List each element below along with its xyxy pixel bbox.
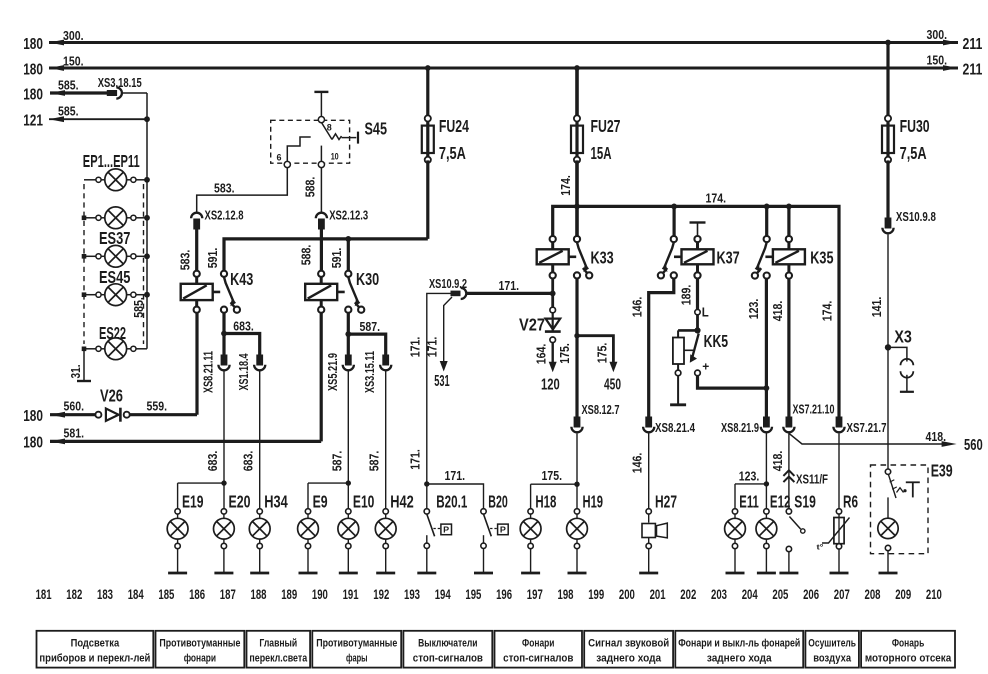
svg-text:194: 194 xyxy=(435,587,451,602)
junction 175/450 branch xyxy=(574,333,579,338)
svg-text:192: 192 xyxy=(373,587,389,602)
connector XS10.9.8 xyxy=(882,209,936,233)
ground (R6) xyxy=(830,572,849,575)
switch S45 lever and stop xyxy=(321,122,358,143)
svg-text:197: 197 xyxy=(527,587,543,602)
svg-text:Фонарь: Фонарь xyxy=(892,638,925,650)
svg-text:H34: H34 xyxy=(264,491,288,511)
junction FU30 on net 300 xyxy=(885,40,891,46)
ground (E9) xyxy=(299,572,318,575)
svg-text:171.: 171. xyxy=(408,449,423,470)
junction net 587 xyxy=(345,331,351,337)
grid number 191 xyxy=(343,587,359,602)
svg-text:Противотуманные: Противотуманные xyxy=(159,638,240,650)
svg-text:E9: E9 xyxy=(313,491,328,511)
svg-text:XS3.15.11: XS3.15.11 xyxy=(362,351,377,393)
svg-text:175.: 175. xyxy=(594,343,609,364)
wire label 591. at K43 xyxy=(205,248,220,269)
grid number 199 xyxy=(588,587,604,602)
ground (H42) xyxy=(376,572,395,575)
svg-text:31.: 31. xyxy=(68,365,83,379)
wire KK5 contact to net 123 xyxy=(698,376,767,389)
grid number 198 xyxy=(558,587,574,602)
lamp E11 xyxy=(725,491,759,573)
wire FU30 to XS10.9.8 xyxy=(886,160,889,217)
svg-text:K33: K33 xyxy=(591,248,614,268)
svg-text:180: 180 xyxy=(23,36,43,53)
legend cell: Осушитель воздуха xyxy=(805,631,859,668)
ground (E10) xyxy=(339,572,358,575)
connector XS2.12.8 xyxy=(191,207,243,229)
svg-text:S45: S45 xyxy=(365,119,388,139)
svg-text:171.: 171. xyxy=(499,278,520,293)
switch S45 label xyxy=(365,119,388,139)
svg-text:E11: E11 xyxy=(739,491,759,511)
node X3 xyxy=(885,327,914,392)
junction on bus at 121 feed xyxy=(144,116,150,122)
connector XS2.12.3 xyxy=(316,207,368,229)
wire 588 from S45 pin 10 to connector XS2.12.3 xyxy=(302,168,321,213)
svg-text:583.: 583. xyxy=(214,180,235,195)
junction FU24 on net 150 xyxy=(425,65,431,71)
junction dot ES45 on bus xyxy=(144,292,150,298)
grid number 203 xyxy=(711,587,727,602)
svg-text:XS10.9.8: XS10.9.8 xyxy=(896,209,936,224)
svg-text:XS2.12.3: XS2.12.3 xyxy=(329,207,368,222)
fuse FU24 7,5A xyxy=(422,68,469,163)
svg-text:209: 209 xyxy=(895,587,911,602)
svg-text:123.: 123. xyxy=(739,469,760,484)
switch S45 dashed enclosure xyxy=(271,120,350,163)
svg-text:фонари: фонари xyxy=(184,653,216,665)
wire 418 to switch S19 xyxy=(770,433,789,509)
relay K35 xyxy=(752,236,834,279)
ground (KK5) xyxy=(670,403,686,406)
wire 583 from S45 pin 6 to connector XS2.12.8 xyxy=(197,168,288,213)
svg-text:174.: 174. xyxy=(819,301,834,322)
grid number 208 xyxy=(865,587,881,602)
junction at H19 wire xyxy=(574,482,579,487)
wire net 174 to K35 switch xyxy=(765,206,768,236)
lamp E10 xyxy=(338,491,375,573)
wire XS2.12.3 to K30 coil (net 588) xyxy=(320,228,323,270)
wire net 174 to K35 coil xyxy=(787,206,790,236)
svg-text:E39: E39 xyxy=(931,461,953,481)
svg-text:585.: 585. xyxy=(58,104,79,119)
wire 585 port 121 xyxy=(23,104,147,130)
legend cell: Сигнал звуковой заднего хода xyxy=(584,631,673,668)
wire 587 to lamp H42 xyxy=(367,371,386,509)
svg-text:E12: E12 xyxy=(770,491,791,511)
grid number 207 xyxy=(834,587,850,602)
svg-text:190: 190 xyxy=(312,587,328,602)
svg-text:418.: 418. xyxy=(770,301,785,322)
grid number 190 xyxy=(312,587,328,602)
svg-text:FU24: FU24 xyxy=(439,116,469,136)
wire 31 to ground from lamp chain xyxy=(68,349,84,381)
wire label 591. at K30 xyxy=(329,248,344,269)
grid number 181 xyxy=(36,587,52,602)
junction net 174 at K35 switch xyxy=(764,204,770,210)
svg-text:EP1...EP11: EP1...EP11 xyxy=(83,151,140,171)
junction at E12 wire xyxy=(764,481,769,486)
grid number 188 xyxy=(251,587,267,602)
svg-text:K30: K30 xyxy=(356,269,379,289)
svg-text:146.: 146. xyxy=(630,453,645,474)
svg-text:H42: H42 xyxy=(390,491,414,511)
ground (B20.1) xyxy=(417,572,436,575)
net 150 bus (second horizontal wire) xyxy=(49,67,958,70)
svg-text:R6: R6 xyxy=(843,491,858,511)
svg-text:+: + xyxy=(702,362,709,374)
wire label 150. (right) xyxy=(927,53,948,68)
wire 175 to lamps H19/H18 xyxy=(531,433,577,508)
lamp E39 dashed enclosure xyxy=(871,461,953,554)
wire label 300. (left) xyxy=(63,28,84,43)
grid number 197 xyxy=(527,587,543,602)
wire 171 branch to node 531 xyxy=(425,297,452,372)
svg-text:10: 10 xyxy=(331,151,339,162)
svg-text:6: 6 xyxy=(277,153,282,164)
svg-text:150.: 150. xyxy=(927,53,948,68)
resistor R6 (air drier heater) xyxy=(817,491,859,573)
lamp H19 xyxy=(567,491,604,573)
legend cell: Фонарь моторного отсека xyxy=(861,631,955,668)
wire net 683 from K43 contact to connectors xyxy=(224,313,260,355)
thermal relay KK5 xyxy=(673,315,728,376)
ground (B20) xyxy=(474,572,493,575)
svg-text:Фонари и выкл-ль фонарей: Фонари и выкл-ль фонарей xyxy=(678,638,800,650)
connector XS8.21.11 xyxy=(201,351,230,393)
svg-text:моторного отсека: моторного отсека xyxy=(865,653,952,665)
connector XS5.21.9 xyxy=(325,353,354,391)
svg-text:188: 188 xyxy=(251,587,267,602)
ground (H19) xyxy=(568,572,587,575)
wire net 175 from K33 contact to XS8.12.7 xyxy=(557,279,577,417)
svg-text:K35: K35 xyxy=(810,248,833,268)
relay K33 xyxy=(537,236,614,279)
svg-text:V27: V27 xyxy=(519,315,545,335)
connector XS3.18.15 xyxy=(98,75,142,99)
wire 559 from V26 to relay K43 coil xyxy=(129,313,197,415)
svg-text:581.: 581. xyxy=(64,425,85,440)
dashed enclosure of panel lamps EP1...EP11 xyxy=(84,184,144,344)
svg-text:195: 195 xyxy=(465,587,481,602)
wire 560 from V26 to port 180 xyxy=(23,399,96,425)
pin 6 of S45 xyxy=(277,153,291,168)
node 450 (off-page arrow) xyxy=(604,377,621,394)
svg-text:E20: E20 xyxy=(229,491,251,511)
junction net 591 to K30 xyxy=(345,236,351,242)
svg-text:204: 204 xyxy=(742,587,758,602)
svg-text:Главный: Главный xyxy=(259,638,297,650)
svg-text:200: 200 xyxy=(619,587,635,602)
wire 175 branch to node 450 xyxy=(577,336,617,373)
svg-text:Подсветка: Подсветка xyxy=(71,638,120,650)
lamp H18 xyxy=(520,491,556,573)
switch S19 xyxy=(786,491,816,573)
svg-text:181: 181 xyxy=(36,587,52,602)
svg-text:XS8.21.9: XS8.21.9 xyxy=(721,420,759,435)
svg-text:Фонари: Фонари xyxy=(522,638,554,650)
svg-text:Противотуманные: Противотуманные xyxy=(316,638,397,650)
svg-text:189: 189 xyxy=(281,587,297,602)
svg-text:189.: 189. xyxy=(678,285,693,306)
svg-text:XS7.21.10: XS7.21.10 xyxy=(793,402,835,417)
wire 587 to lamp E10 and bridge to E9 xyxy=(308,371,348,509)
ground (E19) xyxy=(168,572,187,575)
svg-text:180: 180 xyxy=(23,435,43,452)
svg-text:207: 207 xyxy=(834,587,850,602)
svg-text:стоп-сигналов: стоп-сигналов xyxy=(503,653,574,665)
wire net 123 from K35 contact to XS8.21.9 xyxy=(746,279,766,417)
grid number 184 xyxy=(128,587,144,602)
svg-text:587.: 587. xyxy=(360,319,381,334)
svg-text:Сигнал звуковой: Сигнал звуковой xyxy=(588,638,669,650)
wire XS2.12.8 to K43 coil (net 583) xyxy=(178,228,197,270)
svg-text:Р: Р xyxy=(443,525,449,535)
svg-text:560: 560 xyxy=(964,437,983,454)
svg-text:заднего хода: заднего хода xyxy=(707,653,773,665)
switch S45 terminal bar xyxy=(314,92,328,117)
legend cell: Противотуманные фары xyxy=(312,631,401,668)
wire net 174 connector XS7.21.7 xyxy=(833,417,886,435)
fuse FU30 7,5A xyxy=(882,43,930,164)
svg-text:H18: H18 xyxy=(535,491,556,511)
node 211 (right end of net 150) xyxy=(943,61,983,78)
grid number 209 xyxy=(895,587,911,602)
lamp E12 xyxy=(756,491,790,573)
legend cell: Фонари и выкл-ль фонарей заднего хода xyxy=(675,631,803,668)
svg-text:t°: t° xyxy=(817,543,824,552)
grid number 193 xyxy=(404,587,420,602)
svg-text:196: 196 xyxy=(496,587,512,602)
svg-text:182: 182 xyxy=(66,587,82,602)
svg-text:164.: 164. xyxy=(534,344,549,365)
svg-text:Выключатели: Выключатели xyxy=(418,638,477,650)
grid number 210 xyxy=(926,587,942,602)
grid number 189 xyxy=(281,587,297,602)
wire net 174 to K37 switch xyxy=(672,206,675,236)
junction net 174 at K37 xyxy=(671,204,677,210)
svg-text:180: 180 xyxy=(23,86,43,103)
wire 171 stub from XS10.9.2 down-left xyxy=(408,293,451,484)
grid number 182 xyxy=(66,587,82,602)
net 174 bus to relays K33/K37/K35 xyxy=(553,191,839,417)
S45 lever to pin 10 link xyxy=(320,146,322,162)
grid number 194 xyxy=(435,587,451,602)
lamp ES22 xyxy=(82,323,147,360)
svg-text:174.: 174. xyxy=(558,175,573,196)
wire net 146 from K37 contact to XS8.21.4 xyxy=(630,279,674,417)
connector XS1.18.4 xyxy=(236,353,265,391)
lamp H34 xyxy=(249,491,288,573)
junction dot second lamp on bus xyxy=(144,215,150,221)
lamp-chain right bus wire 585 xyxy=(131,119,147,349)
svg-text:683.: 683. xyxy=(241,451,256,472)
svg-text:L: L xyxy=(702,304,709,319)
svg-text:587.: 587. xyxy=(367,451,382,472)
grid number 201 xyxy=(650,587,666,602)
svg-text:211: 211 xyxy=(963,36,983,53)
svg-text:559.: 559. xyxy=(147,399,168,414)
svg-text:583.: 583. xyxy=(178,250,193,271)
terminal bar above K37 coil xyxy=(690,223,706,236)
lamp E19 xyxy=(167,491,204,573)
wire 123 to lamps E12/E11 xyxy=(735,433,766,508)
wire KK5 resistor to ground xyxy=(677,376,679,405)
svg-text:H19: H19 xyxy=(583,491,604,511)
switch B20.1 (stop signal) xyxy=(424,484,467,573)
junction net 174 at K35 coil xyxy=(786,204,792,210)
ground (E12) xyxy=(757,572,776,575)
grid number 205 xyxy=(772,587,788,602)
svg-text:B20.1: B20.1 xyxy=(436,491,467,511)
svg-text:211: 211 xyxy=(963,61,983,78)
svg-text:175.: 175. xyxy=(542,468,563,483)
svg-text:перекл.света: перекл.света xyxy=(249,653,308,665)
junction KK5/net 123 xyxy=(764,385,770,391)
node 211 (right end of net 300) xyxy=(943,36,983,53)
lamp ES45 xyxy=(82,267,147,306)
node 560 (off-page arrow) xyxy=(942,437,983,454)
svg-text:185: 185 xyxy=(158,587,174,602)
legend cell: Выключатели стоп-сигналов xyxy=(403,631,492,668)
svg-text:123.: 123. xyxy=(746,299,761,320)
wire FU27 to K33 (net 174) xyxy=(558,160,577,236)
svg-text:201: 201 xyxy=(650,587,666,602)
lamp E9 xyxy=(298,491,328,573)
svg-text:XS10.9.2: XS10.9.2 xyxy=(429,276,467,291)
wire 171 from XS10.9.2 to V27 branch xyxy=(467,278,553,293)
pin 8 of S45 xyxy=(318,117,332,134)
svg-text:199: 199 xyxy=(588,587,604,602)
lamp E39 with switch xyxy=(878,469,920,573)
svg-text:X3: X3 xyxy=(894,327,912,347)
wire 418 to port 560 xyxy=(789,429,950,444)
wire 683 to lamp H34 xyxy=(241,371,260,509)
svg-text:V26: V26 xyxy=(100,386,123,406)
ground (H34) xyxy=(250,572,269,575)
svg-text:XS8.21.11: XS8.21.11 xyxy=(201,351,216,393)
ground (S19) xyxy=(779,572,798,575)
ground (H18) xyxy=(521,572,540,575)
S45 internal step contact xyxy=(287,137,310,161)
svg-text:фары: фары xyxy=(346,653,368,665)
wire net 189 from K37 coil to node L xyxy=(678,279,697,310)
svg-text:H27: H27 xyxy=(655,491,677,511)
svg-text:K37: K37 xyxy=(717,248,740,268)
wire net 141 to lamp E39 xyxy=(869,234,888,469)
wire 581 from port 180 to relay K30 coil xyxy=(23,313,321,452)
svg-text:XS2.12.8: XS2.12.8 xyxy=(205,207,244,222)
svg-text:121: 121 xyxy=(23,113,43,130)
ground (E39) xyxy=(879,572,898,575)
svg-text:E10: E10 xyxy=(353,491,375,511)
svg-text:171.: 171. xyxy=(408,337,423,358)
legend cell: Противотуманные фонари xyxy=(156,631,245,668)
diode V27 xyxy=(519,307,561,364)
diode V26 xyxy=(95,386,129,422)
legend cell: Фонари стоп-сигналов xyxy=(495,631,583,668)
svg-text:208: 208 xyxy=(865,587,881,602)
svg-text:B20: B20 xyxy=(488,491,508,511)
svg-text:FU27: FU27 xyxy=(591,116,621,136)
svg-text:300.: 300. xyxy=(63,28,84,43)
connector XS8.21.9 xyxy=(721,417,772,435)
relay K30 xyxy=(305,269,379,313)
svg-text:S19: S19 xyxy=(794,491,816,511)
svg-text:591.: 591. xyxy=(329,248,344,269)
lamp ES37 xyxy=(82,228,147,267)
svg-text:531: 531 xyxy=(434,373,450,390)
svg-text:587.: 587. xyxy=(329,451,344,472)
legend cell: Главный перекл.света xyxy=(247,631,311,668)
ground (E11) xyxy=(726,572,745,575)
svg-text:198: 198 xyxy=(558,587,574,602)
connector XS8.21.4 xyxy=(643,417,696,435)
pin 10 of S45 xyxy=(318,151,338,167)
svg-text:150.: 150. xyxy=(63,54,84,69)
grid number 187 xyxy=(220,587,236,602)
net 300 bus (top horizontal wire) xyxy=(49,41,958,44)
svg-text:KK5: KK5 xyxy=(704,331,729,351)
svg-text:XS3.18.15: XS3.18.15 xyxy=(98,75,142,90)
svg-text:184: 184 xyxy=(128,587,144,602)
svg-text:174.: 174. xyxy=(706,191,727,206)
junction net 683 xyxy=(221,331,227,337)
wire K33 coil to diode V27 xyxy=(551,279,554,308)
svg-text:202: 202 xyxy=(680,587,696,602)
svg-text:186: 186 xyxy=(189,587,205,602)
grid number 200 xyxy=(619,587,635,602)
junction at E10 wire xyxy=(346,480,351,485)
grid number 204 xyxy=(742,587,758,602)
svg-text:588.: 588. xyxy=(302,177,317,198)
connector XS11/F xyxy=(783,470,828,486)
switch B20 (stop signal) xyxy=(481,491,508,573)
grid number 183 xyxy=(97,587,113,602)
grid number 186 xyxy=(189,587,205,602)
connector XS8.12.7 xyxy=(571,402,619,432)
svg-text:418.: 418. xyxy=(770,451,785,472)
svg-text:E19: E19 xyxy=(182,491,204,511)
svg-text:175.: 175. xyxy=(557,343,572,364)
svg-text:Осушитель: Осушитель xyxy=(808,638,856,650)
svg-text:180: 180 xyxy=(23,408,43,425)
relay K43 xyxy=(181,269,254,313)
junction at E20 wire xyxy=(221,480,226,485)
svg-text:7,5A: 7,5A xyxy=(900,143,927,163)
svg-text:683.: 683. xyxy=(205,451,220,472)
grid number 192 xyxy=(373,587,389,602)
junction dot lamp EP1 on bus xyxy=(144,177,150,183)
svg-text:146.: 146. xyxy=(630,297,645,318)
lamp H42 xyxy=(375,491,413,573)
relay K37 xyxy=(658,236,740,279)
connector XS10.9.2 xyxy=(429,276,467,299)
legend cell: Подсветка приборов и перекл-лей xyxy=(37,631,154,668)
node L xyxy=(695,304,709,319)
svg-text:187: 187 xyxy=(220,587,236,602)
svg-text:300.: 300. xyxy=(927,27,948,42)
wire net 587 from K30 contact to connectors xyxy=(348,313,385,355)
svg-text:183: 183 xyxy=(97,587,113,602)
wire 585 to connector XS3.18.15, port 180 xyxy=(23,78,107,104)
node 180 (left end of net 300) xyxy=(23,36,64,53)
svg-text:XS5.21.9: XS5.21.9 xyxy=(325,353,340,391)
svg-text:120: 120 xyxy=(541,377,560,394)
